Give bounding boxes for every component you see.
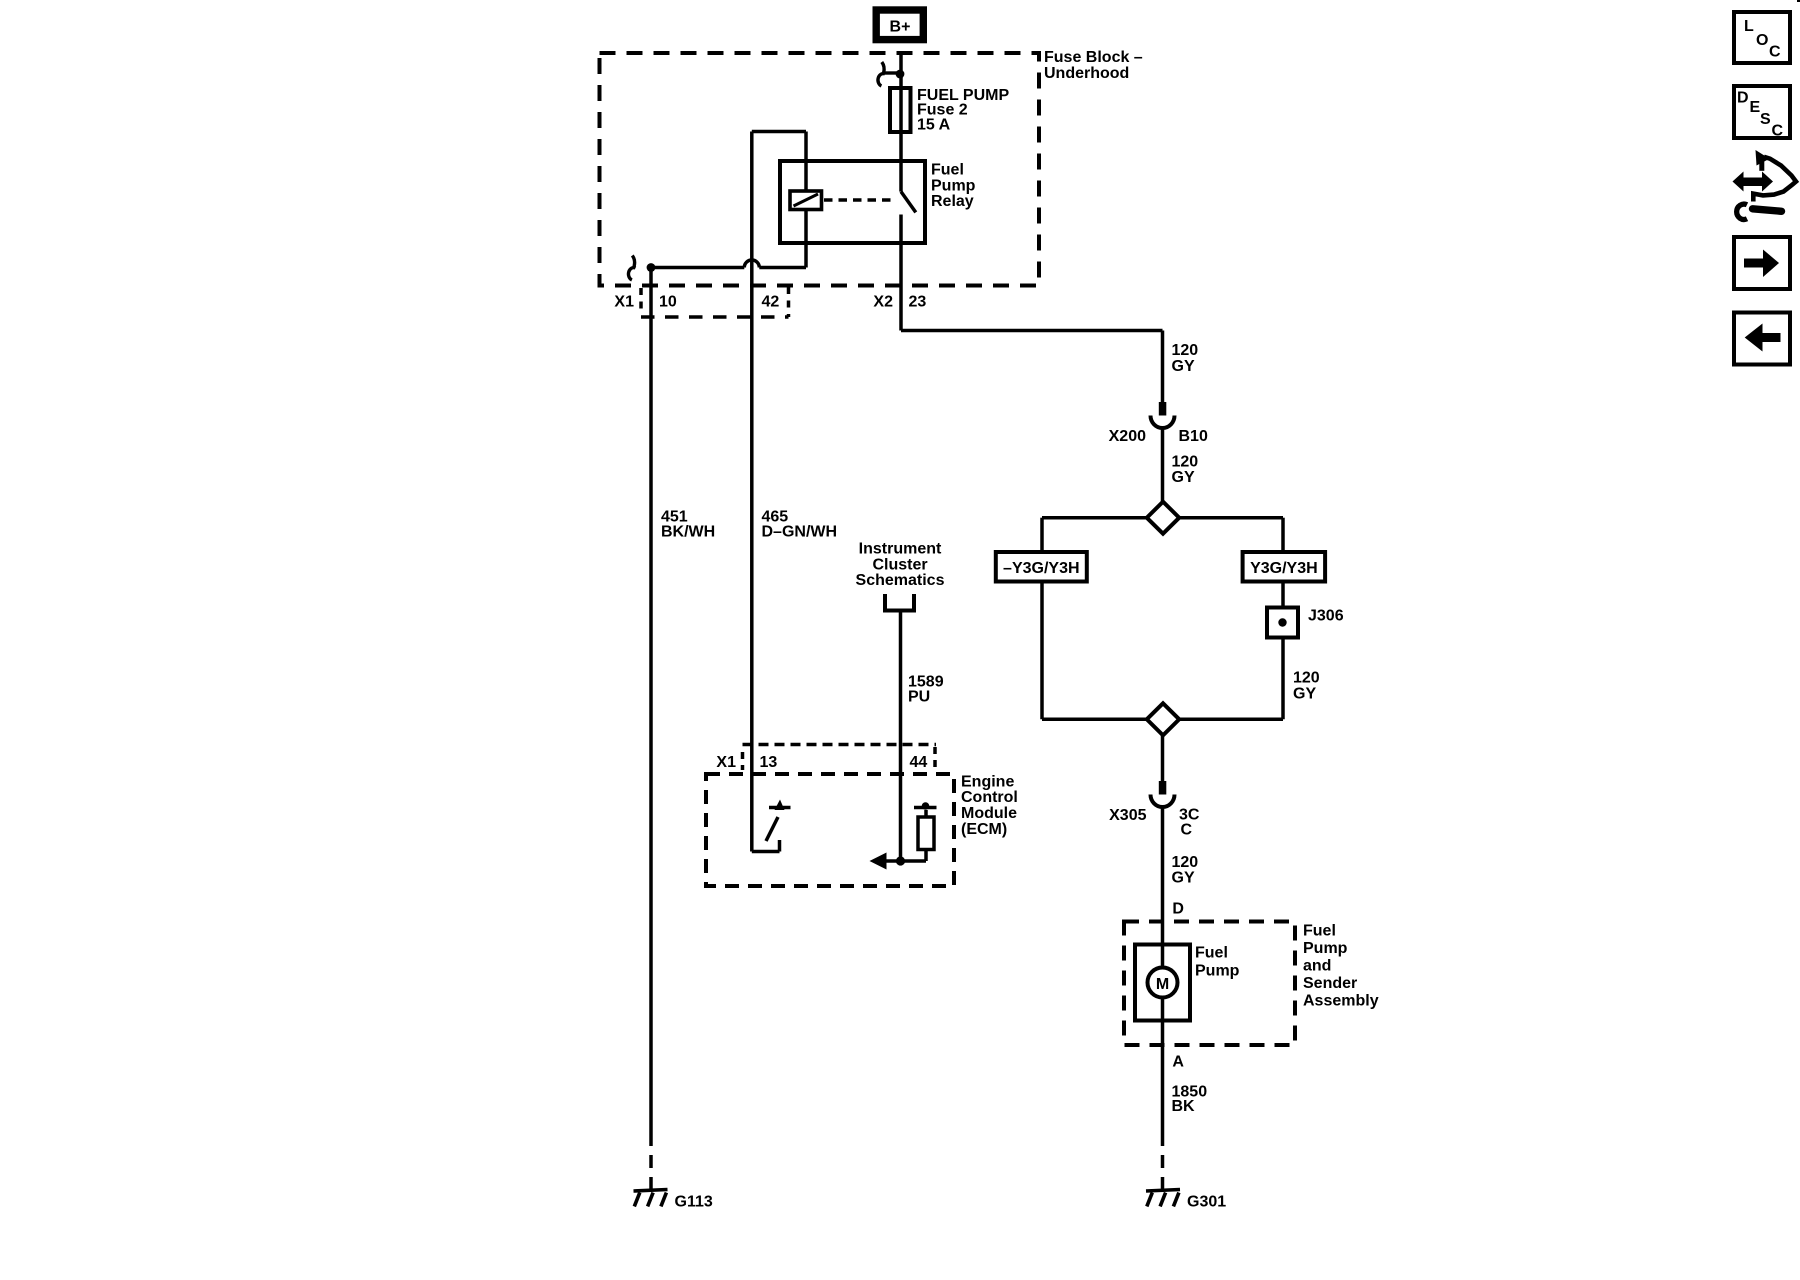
wire: X305 down to fuel pump xyxy=(1161,807,1165,967)
relay label xyxy=(931,162,976,211)
svg-text:M: M xyxy=(1156,976,1169,993)
wire: relay coil top loop to pin 42 xyxy=(752,132,806,192)
wire: relay switch output down and right to X200 xyxy=(901,243,1163,402)
fuse block bus connection curl at pin 10 feed xyxy=(628,256,635,281)
svg-text:L: L xyxy=(1744,18,1754,35)
svg-text:D: D xyxy=(1172,900,1184,917)
junction dot pin 10 feed xyxy=(647,263,656,272)
wire: bottom splice down to X305 xyxy=(1161,735,1165,781)
svg-text:X305: X305 xyxy=(1109,807,1146,824)
fuel pump motor xyxy=(1148,968,1178,998)
svg-text:G113: G113 xyxy=(675,1193,713,1210)
svg-text:C: C xyxy=(1181,822,1193,839)
wire: battery feed down from B+ through fuse to relay xyxy=(899,52,903,161)
svg-text:O: O xyxy=(1756,32,1768,49)
wire: Y3G/Y3H to J306 xyxy=(1281,582,1285,608)
relay coil-to-switch dashed link xyxy=(824,198,894,202)
battery terminal B+ xyxy=(876,10,923,40)
svg-text:J306: J306 xyxy=(1308,607,1344,624)
svg-text:23: 23 xyxy=(909,293,927,310)
svg-text:44: 44 xyxy=(910,754,928,771)
svg-text:Pump: Pump xyxy=(931,177,976,194)
svg-text:E: E xyxy=(1750,99,1761,116)
sidebar icon wrench/arrows (repair info) xyxy=(1733,150,1797,220)
wire label 120 GY (below X200) xyxy=(1172,453,1199,486)
junction dot at pin 44 node xyxy=(896,856,905,865)
wire label 120 GY (right branch) xyxy=(1293,670,1320,703)
fuel pump relay box xyxy=(780,161,925,243)
wire: top splice bus xyxy=(1042,516,1283,520)
harness option box Y3G/Y3H xyxy=(1243,552,1326,582)
svg-text:GY: GY xyxy=(1172,870,1195,887)
svg-text:S: S xyxy=(1760,111,1771,128)
junction dot at fuse feed xyxy=(896,70,905,79)
svg-text:G301: G301 xyxy=(1187,1193,1226,1210)
wire: bottom splice bus xyxy=(1042,718,1283,722)
wire 465 vertical (pin 42 down to ECM) xyxy=(750,132,754,852)
svg-text:GY: GY xyxy=(1172,469,1195,486)
svg-text:13: 13 xyxy=(760,754,778,771)
svg-text:Module: Module xyxy=(961,805,1017,822)
ground G113 xyxy=(634,1190,713,1211)
wire through pump xyxy=(1161,967,1165,1133)
arrow: ECM internal circuit continuation xyxy=(870,853,901,870)
svg-text:and: and xyxy=(1303,957,1331,974)
svg-text:Pump: Pump xyxy=(1303,940,1348,957)
relay switch xyxy=(901,161,916,243)
Fuel Pump and Sender Assembly dashed box xyxy=(1124,922,1379,1046)
in-line connector X305 3C/C xyxy=(1109,781,1200,839)
svg-text:X2: X2 xyxy=(873,293,893,310)
wire 1589 PU xyxy=(899,611,903,862)
svg-text:Relay: Relay xyxy=(931,193,974,210)
svg-text:GY: GY xyxy=(1293,685,1316,702)
ground G301 xyxy=(1146,1190,1226,1211)
svg-text:15 A: 15 A xyxy=(917,116,951,133)
svg-text:–Y3G/Y3H: –Y3G/Y3H xyxy=(1003,560,1079,577)
svg-text:120: 120 xyxy=(1172,342,1199,359)
fuse FUEL PUMP Fuse 2 15 A xyxy=(890,87,1009,134)
wire: pump to ground dashed end xyxy=(1161,1133,1165,1190)
svg-text:D–GN/WH: D–GN/WH xyxy=(762,523,838,540)
wire label 1589 PU xyxy=(908,674,944,706)
svg-text:Fuse Block –: Fuse Block – xyxy=(1044,49,1143,66)
svg-text:C: C xyxy=(1769,43,1781,60)
in-line connector X200 B10 xyxy=(1109,402,1208,445)
svg-text:Engine: Engine xyxy=(961,773,1014,790)
svg-text:C: C xyxy=(1772,123,1784,140)
sidebar icon forward arrow xyxy=(1734,237,1790,289)
splice diamond (top) xyxy=(1147,502,1179,534)
svg-text:Fuel: Fuel xyxy=(1303,922,1336,939)
sidebar icon LOC xyxy=(1734,12,1790,63)
wire: X200 down to splice diamond xyxy=(1161,428,1165,502)
svg-text:Control: Control xyxy=(961,789,1018,806)
svg-text:B10: B10 xyxy=(1179,428,1208,445)
svg-text:10: 10 xyxy=(659,293,677,310)
Fuse Block - Underhood dashed enclosure xyxy=(600,49,1143,286)
relay coil xyxy=(790,191,822,210)
resistor: ECM internal pull-up (pin 44) xyxy=(901,802,937,861)
svg-text:Fuel: Fuel xyxy=(931,162,964,179)
wire label 451 BK/WH xyxy=(661,509,715,541)
wire: left branch into -Y3G/Y3H xyxy=(1040,518,1044,552)
sidebar icon back arrow xyxy=(1734,313,1790,365)
Engine Control Module dashed box xyxy=(706,773,1018,886)
svg-text:120: 120 xyxy=(1172,854,1199,871)
svg-text:B+: B+ xyxy=(890,19,911,36)
svg-text:Instrument: Instrument xyxy=(859,541,942,558)
wire label 465 D-GN/WH xyxy=(762,509,838,541)
svg-text:X1: X1 xyxy=(716,754,736,771)
svg-text:Y3G/Y3H: Y3G/Y3H xyxy=(1250,560,1318,577)
svg-text:Cluster: Cluster xyxy=(872,556,927,573)
connector row X1 (fuse block pins 10 / 42) xyxy=(614,287,788,317)
splice diamond (bottom) xyxy=(1147,703,1179,735)
svg-text:X1: X1 xyxy=(614,293,634,310)
wire label 120 GY (to pump) xyxy=(1172,854,1199,887)
svg-text:120: 120 xyxy=(1172,453,1199,470)
Instrument Cluster Schematics reference xyxy=(856,541,945,590)
svg-text:Fuel: Fuel xyxy=(1195,944,1228,961)
fuse block bus connection curl xyxy=(878,62,900,86)
svg-text:PU: PU xyxy=(908,688,930,705)
wire label 120 GY (above X200) xyxy=(1172,342,1199,375)
sidebar icon DESC xyxy=(1734,86,1790,140)
fuel pump box xyxy=(1135,944,1240,1020)
svg-text:X200: X200 xyxy=(1109,428,1146,445)
svg-text:Schematics: Schematics xyxy=(856,572,945,589)
page corner artifact xyxy=(1797,0,1800,2)
connector label X2 / 23 xyxy=(873,293,926,310)
wire 451 BK/WH vertical down to ground xyxy=(649,268,653,1191)
off-page connector fork xyxy=(885,594,914,611)
svg-text:Assembly: Assembly xyxy=(1303,992,1379,1009)
svg-text:A: A xyxy=(1172,1053,1184,1070)
svg-text:D: D xyxy=(1737,89,1749,106)
svg-text:Underhood: Underhood xyxy=(1044,65,1129,82)
wire label 1850 BK xyxy=(1172,1083,1208,1115)
connector row X1 (ECM pins 13 / 44) xyxy=(716,745,936,771)
svg-text:42: 42 xyxy=(762,293,780,310)
ECM internal switch (pin 13) xyxy=(752,808,791,852)
wire: relay coil bottom to pin 10 with hop over wire 465 xyxy=(651,210,806,268)
svg-text:(ECM): (ECM) xyxy=(961,821,1007,838)
wire: right branch into Y3G/Y3H xyxy=(1281,518,1285,552)
svg-text:BK/WH: BK/WH xyxy=(661,523,715,540)
svg-text:120: 120 xyxy=(1293,670,1320,687)
wire: left branch below -Y3G/Y3H xyxy=(1040,582,1044,720)
svg-text:Pump: Pump xyxy=(1195,962,1240,979)
splice J306 xyxy=(1267,607,1344,637)
harness option box -Y3G/Y3H xyxy=(996,552,1087,582)
wire: J306 down to bottom splice bus xyxy=(1281,638,1285,720)
svg-text:GY: GY xyxy=(1172,358,1195,375)
svg-text:BK: BK xyxy=(1172,1098,1196,1115)
svg-text:Sender: Sender xyxy=(1303,975,1357,992)
